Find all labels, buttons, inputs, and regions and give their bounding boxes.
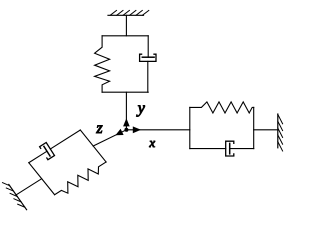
spring K_y (left branch, vertical zigzag) [95,36,110,92]
wire box to right wall [254,129,278,131]
node O (junction dot) [124,128,128,132]
spring K_x (top branch, horizontal zigzag) [190,102,254,113]
damper C_y piston rod (right branch upper) [147,36,149,57]
damper C_z piston plate [44,146,50,156]
wire from bottom bar down to node O [125,92,127,130]
wire left edge of horizontal Kelvin element [189,107,191,148]
svg-text:y: y [136,100,146,117]
wire ceiling stem [125,15,127,36]
wire lower-left edge of z element box [29,163,55,195]
ground wall right (fixed support) [278,114,283,151]
axis arrow y (up) [123,118,130,126]
wire node to x-element box [126,129,189,131]
damper C_z rod from piston to left corner [29,151,47,163]
spring K_z (lower branch zigzag) [55,162,107,195]
damper C_x cylinder cup [226,141,234,156]
svg-text:x: x [148,135,155,150]
wire right edge of horizontal element [253,107,255,148]
damper C_y lower rod [147,61,149,92]
damper C_z rod from top corner to cylinder [50,130,80,149]
wire upper-right edge of z element box [80,130,106,162]
ground ceiling (top fixed support) [108,10,149,15]
axis arrow z (down-left toward viewer) [115,129,123,135]
damper C_z cylinder cup [40,143,55,160]
damper C_y piston plate [142,56,154,58]
damper C_x piston rod to right edge [230,148,254,150]
wire box to lower-left wall [16,179,42,195]
damper C_x piston plate [229,143,231,153]
wire bottom bar of vertical element [102,91,148,93]
damper C_x left bar [190,148,226,150]
wire top bar of vertical Kelvin element [102,35,148,37]
axis arrow x (right) [133,126,141,133]
ground wall lower-left (fixed support) [3,183,27,210]
svg-text:z: z [95,120,103,137]
wire node to z-element box [93,130,126,146]
damper C_y cylinder cup [140,54,156,61]
